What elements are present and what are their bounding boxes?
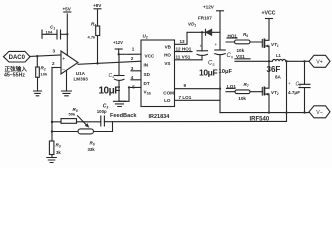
resistor R3 3k [49,141,61,158]
svg-text:正弦输入: 正弦输入 [5,65,28,73]
svg-text:V−: V− [316,110,323,116]
svg-text:C4: C4 [109,73,115,79]
svg-text:U1A: U1A [76,71,86,76]
svg-text:+: + [200,44,203,49]
svg-text:10k: 10k [41,72,48,77]
op-amp U1A LM393 [61,51,88,82]
svg-text:HO: HO [164,53,171,58]
resistor R6 10k gate [226,32,262,53]
junction dot output/R4 [96,62,98,64]
svg-text:VS: VS [164,61,170,66]
svg-text:DT: DT [144,81,150,86]
svg-text:R6: R6 [243,32,248,38]
svg-text:1: 1 [132,47,135,52]
capacitor C2 10uF [109,54,125,101]
svg-text:13: 13 [180,39,186,44]
junction dot feedback rail [285,111,287,113]
svg-text:LM393: LM393 [74,77,89,82]
svg-text:C5: C5 [208,61,215,67]
resistor R6 33k [52,129,113,152]
junction dot midpoint [268,60,270,62]
net label VS1 midpoint [235,54,250,59]
svg-text:LO: LO [164,98,171,103]
feedback return wire [113,121,287,131]
pin 9 COM wire [175,83,221,89]
+12V supply for driver [113,40,123,55]
pin 11 VS1 net label [175,55,203,60]
junction dot Vss [128,86,130,88]
ground under C2 [114,101,126,106]
svg-text:L1: L1 [276,53,282,58]
wire Vss pin5 to ground [119,87,141,101]
capacitor C1 104 [42,25,67,40]
svg-text:+8V: +8V [93,3,102,8]
junction dot fb2 [51,130,53,132]
svg-text:VCC: VCC [145,54,155,59]
svg-text:V+: V+ [316,60,323,66]
svg-text:5: 5 [132,84,135,89]
+8V supply [93,3,102,9]
svg-text:R7: R7 [244,82,249,88]
svg-text:45~55Hz: 45~55Hz [4,73,25,79]
svg-text:C8: C8 [296,82,302,88]
node A junction dot [36,55,38,57]
wire VCC pin1 [119,53,141,55]
transistor VT2 MOSFET [262,61,279,112]
svg-text:8A: 8A [275,75,282,80]
junction dot C1/+5V [66,33,68,35]
svg-text:C6: C6 [227,53,234,59]
svg-text:33k: 33k [88,147,96,152]
svg-text:11 VS1: 11 VS1 [176,55,191,60]
svg-text:+5V: +5V [63,7,72,12]
junction dot +12V [118,53,120,55]
svg-text:10μF: 10μF [219,69,233,75]
svg-text:VD1: VD1 [188,22,196,28]
net label LO1 lower gate [227,84,237,89]
wire midpoint [235,60,269,62]
wire inverting node vertical [51,68,53,142]
capacitor C5 bootstrap 10uF [197,32,215,67]
inductor L1 [269,53,309,61]
resistor R1 10k [36,56,48,91]
svg-text:100p: 100p [97,109,107,114]
svg-text:−: − [62,68,65,74]
transistor VT1 MOSFET [262,19,279,62]
ground under R3 [47,158,57,163]
svg-text:10k: 10k [238,96,246,101]
ground under R1 [34,91,42,96]
svg-text:IN: IN [144,63,149,68]
svg-text:7 LO1: 7 LO1 [179,95,192,100]
svg-text:+: + [288,81,291,86]
junction dot C8 top [303,60,305,62]
svg-text:R4: R4 [91,22,96,28]
label sine input 45-55Hz [4,65,27,79]
svg-text:10μF: 10μF [199,68,217,78]
+5V supply [63,7,72,13]
svg-text:+VCC: +VCC [262,11,276,17]
bottom rail wire [220,112,309,114]
svg-text:3k: 3k [56,150,61,155]
net label HO1 upper gate [227,33,237,38]
svg-text:104: 104 [46,29,53,34]
svg-text:2: 2 [131,56,134,61]
ground under op-amp [62,91,72,96]
svg-text:+: + [215,42,218,47]
+VCC supply [262,11,276,19]
svg-text:10k: 10k [237,48,245,53]
op-amp V+ supply wire [66,14,68,55]
svg-text:IR21834: IR21834 [149,114,171,120]
svg-text:50k: 50k [69,112,76,117]
svg-text:DAC0: DAC0 [9,55,26,61]
svg-text:VT2: VT2 [271,90,279,96]
svg-text:+12V: +12V [203,5,215,10]
+12V supply right [203,5,224,51]
svg-text:COM: COM [163,91,174,96]
output terminal V- [309,106,330,118]
svg-text:VB: VB [165,45,172,50]
feedback tap wire [286,61,288,121]
svg-text:+12V: +12V [113,40,123,45]
junction dot COM [219,88,221,90]
svg-text:VT1: VT1 [271,42,279,48]
op-amp V- ground wire [66,71,68,92]
resistor R7 10k gate [226,82,262,101]
svg-text:2: 2 [52,61,55,66]
junction dot C8 bottom [303,111,305,113]
pin 12 HO1 net label [175,47,193,52]
svg-text:4.7k: 4.7k [88,35,97,40]
svg-text:+: + [62,56,65,62]
svg-text:VSS: VSS [144,90,151,96]
svg-text:9: 9 [184,83,187,88]
capacitor C3 100p [97,104,113,127]
svg-text:FR107: FR107 [198,15,212,20]
svg-text:FeedBack: FeedBack [110,113,137,119]
junction dot feedback top [285,60,287,62]
svg-text:10μF: 10μF [99,86,121,97]
wire input to op-amp [30,55,61,56]
pin 7 LO1 wire [175,95,221,100]
capacitor C6 filter 10uF [215,42,234,113]
input terminal DAC0 [4,51,31,62]
svg-text:U2: U2 [143,34,148,40]
svg-text:3: 3 [131,66,134,71]
svg-text:R3: R3 [56,143,61,149]
value 36F 8A [267,65,282,80]
wire inverting input [52,67,61,69]
svg-text:12 HO1: 12 HO1 [176,47,192,52]
svg-text:R6: R6 [90,141,95,147]
resistor R4 4.7k pull-up [88,10,100,64]
svg-text:VS1: VS1 [236,54,245,59]
diode VD1 FR107 [188,15,212,35]
pin stubs 1-5 [131,47,141,90]
capacitor C8 4.7uF output [288,61,310,112]
svg-text:4.7μF: 4.7μF [288,90,300,95]
svg-text:3: 3 [53,49,56,54]
junction dot VB/bootstrap [201,31,203,33]
svg-text:SD: SD [144,72,151,77]
junction dot fb1 [51,121,53,123]
pin 13 VB wire [175,32,221,44]
output terminal V+ [309,55,330,67]
junction dot VT2 source [268,111,270,113]
op-amp output wire [78,61,141,64]
IC U2 IR21834 box [141,34,175,107]
svg-text:4: 4 [131,75,134,80]
potentiometer R5 50k [52,107,101,128]
